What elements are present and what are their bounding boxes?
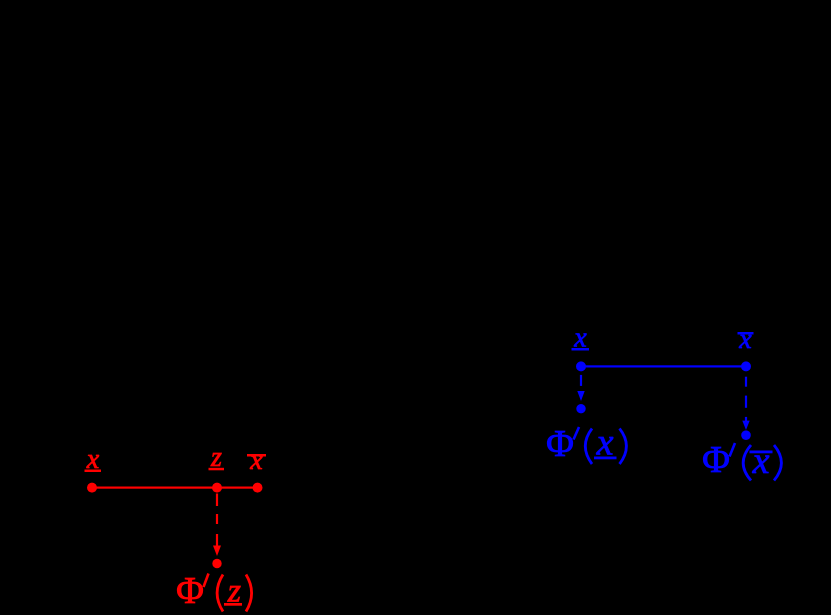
- svg-text:x: x: [249, 445, 263, 476]
- svg-text:Φ: Φ: [546, 423, 574, 465]
- svg-text:Φ: Φ: [702, 439, 730, 481]
- svg-text:x: x: [738, 324, 752, 355]
- svg-text:x: x: [752, 440, 770, 482]
- svg-text:Φ: Φ: [176, 570, 204, 612]
